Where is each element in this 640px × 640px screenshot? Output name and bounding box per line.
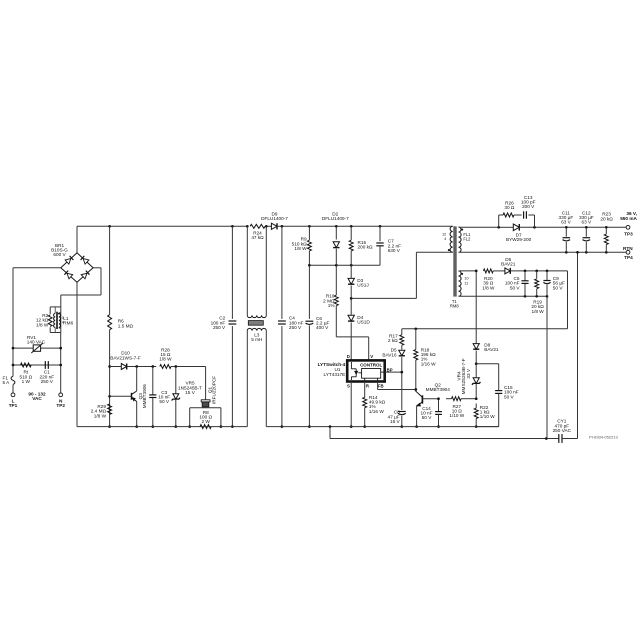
svg-text:2 kΩ: 2 kΩ bbox=[388, 338, 398, 343]
svg-text:BAV16: BAV16 bbox=[382, 352, 397, 357]
svg-text:16 V: 16 V bbox=[390, 419, 401, 424]
svg-text:550 mA: 550 mA bbox=[620, 216, 637, 221]
svg-text:1/10 W: 1/10 W bbox=[449, 413, 464, 418]
svg-text:LYTSwitch-4: LYTSwitch-4 bbox=[318, 362, 346, 367]
svg-text:50 V: 50 V bbox=[159, 399, 170, 404]
svg-text:200 kΩ: 200 kΩ bbox=[358, 244, 373, 249]
svg-text:1/8 W: 1/8 W bbox=[531, 309, 544, 314]
svg-text:11: 11 bbox=[464, 281, 468, 285]
svg-text:TP3: TP3 bbox=[624, 231, 633, 236]
svg-text:1/8 W: 1/8 W bbox=[482, 285, 495, 290]
svg-text:S: S bbox=[347, 384, 350, 389]
svg-text:4: 4 bbox=[62, 320, 64, 324]
svg-text:BP: BP bbox=[387, 367, 393, 372]
svg-text:MMBT3904: MMBT3904 bbox=[426, 387, 451, 392]
svg-text:1/8 W: 1/8 W bbox=[94, 413, 107, 418]
svg-text:400 V: 400 V bbox=[316, 325, 329, 330]
svg-text:1%: 1% bbox=[328, 303, 335, 308]
svg-text:5 A: 5 A bbox=[3, 380, 11, 385]
svg-text:15 V: 15 V bbox=[185, 390, 196, 395]
svg-text:BAV21: BAV21 bbox=[501, 262, 516, 267]
svg-text:1/8 W: 1/8 W bbox=[159, 357, 172, 362]
svg-text:FL2: FL2 bbox=[463, 237, 471, 242]
svg-text:US1D: US1D bbox=[357, 320, 370, 325]
svg-text:47 kΩ: 47 kΩ bbox=[251, 235, 264, 240]
svg-text:63 V: 63 V bbox=[561, 220, 572, 225]
svg-text:630 V: 630 V bbox=[388, 248, 401, 253]
svg-text:TP2: TP2 bbox=[56, 403, 65, 408]
svg-text:140 VAC: 140 VAC bbox=[27, 339, 46, 344]
svg-text:1/8 W: 1/8 W bbox=[36, 322, 49, 327]
svg-text:600 V: 600 V bbox=[53, 252, 66, 257]
svg-text:RTN: RTN bbox=[623, 246, 633, 251]
svg-text:BAV21: BAV21 bbox=[484, 347, 499, 352]
svg-text:2 W: 2 W bbox=[202, 419, 211, 424]
svg-text:RM6: RM6 bbox=[63, 320, 73, 325]
svg-text:250 VAC: 250 VAC bbox=[553, 428, 572, 433]
svg-text:200 V: 200 V bbox=[522, 204, 535, 209]
svg-text:VAC: VAC bbox=[32, 396, 42, 401]
svg-text:250 V: 250 V bbox=[41, 379, 54, 384]
svg-text:50 V: 50 V bbox=[422, 415, 433, 420]
svg-text:5 mH: 5 mH bbox=[251, 337, 262, 342]
svg-text:1/8 W: 1/8 W bbox=[294, 246, 307, 251]
svg-text:U1: U1 bbox=[335, 367, 341, 372]
svg-text:V: V bbox=[370, 354, 373, 359]
svg-text:US1J: US1J bbox=[357, 283, 368, 288]
svg-text:BYW29-200: BYW29-200 bbox=[506, 237, 532, 242]
svg-text:12: 12 bbox=[442, 233, 446, 237]
svg-text:30 Ω: 30 Ω bbox=[504, 205, 515, 210]
svg-text:CONTROL: CONTROL bbox=[360, 362, 382, 367]
svg-text:5: 5 bbox=[62, 316, 64, 320]
svg-text:BAV21WS-7-F: BAV21WS-7-F bbox=[110, 355, 141, 360]
svg-text:1/16 W: 1/16 W bbox=[369, 409, 384, 414]
svg-text:250 V: 250 V bbox=[213, 325, 226, 330]
svg-text:33 V: 33 V bbox=[466, 368, 471, 379]
svg-text:1 W: 1 W bbox=[22, 379, 31, 384]
svg-text:IRFU220PCF: IRFU220PCF bbox=[211, 376, 216, 404]
svg-text:FB: FB bbox=[378, 384, 384, 389]
svg-text:TP1: TP1 bbox=[9, 403, 18, 408]
svg-text:4: 4 bbox=[444, 237, 446, 241]
svg-text:20 kΩ: 20 kΩ bbox=[600, 216, 613, 221]
svg-text:250 V: 250 V bbox=[289, 325, 302, 330]
svg-text:50 V: 50 V bbox=[504, 394, 515, 399]
svg-text:RM8: RM8 bbox=[450, 303, 460, 308]
svg-text:DFLU1400-7: DFLU1400-7 bbox=[261, 216, 288, 221]
svg-text:50 V: 50 V bbox=[510, 285, 521, 290]
svg-text:1.5 MΩ: 1.5 MΩ bbox=[118, 323, 134, 328]
svg-text:LYT4317E: LYT4317E bbox=[323, 372, 345, 377]
svg-text:D: D bbox=[347, 354, 350, 359]
svg-text:DFLU1400-7: DFLU1400-7 bbox=[322, 216, 349, 221]
svg-text:1/10 W: 1/10 W bbox=[480, 414, 495, 419]
svg-text:TP4: TP4 bbox=[624, 255, 633, 260]
svg-text:50 V: 50 V bbox=[553, 285, 564, 290]
svg-text:63 V: 63 V bbox=[581, 220, 592, 225]
svg-text:1/16 W: 1/16 W bbox=[421, 361, 436, 366]
svg-text:10: 10 bbox=[464, 277, 468, 281]
svg-text:PI-6934-052213: PI-6934-052213 bbox=[589, 435, 618, 440]
svg-text:MMBT3906: MMBT3906 bbox=[142, 384, 147, 409]
